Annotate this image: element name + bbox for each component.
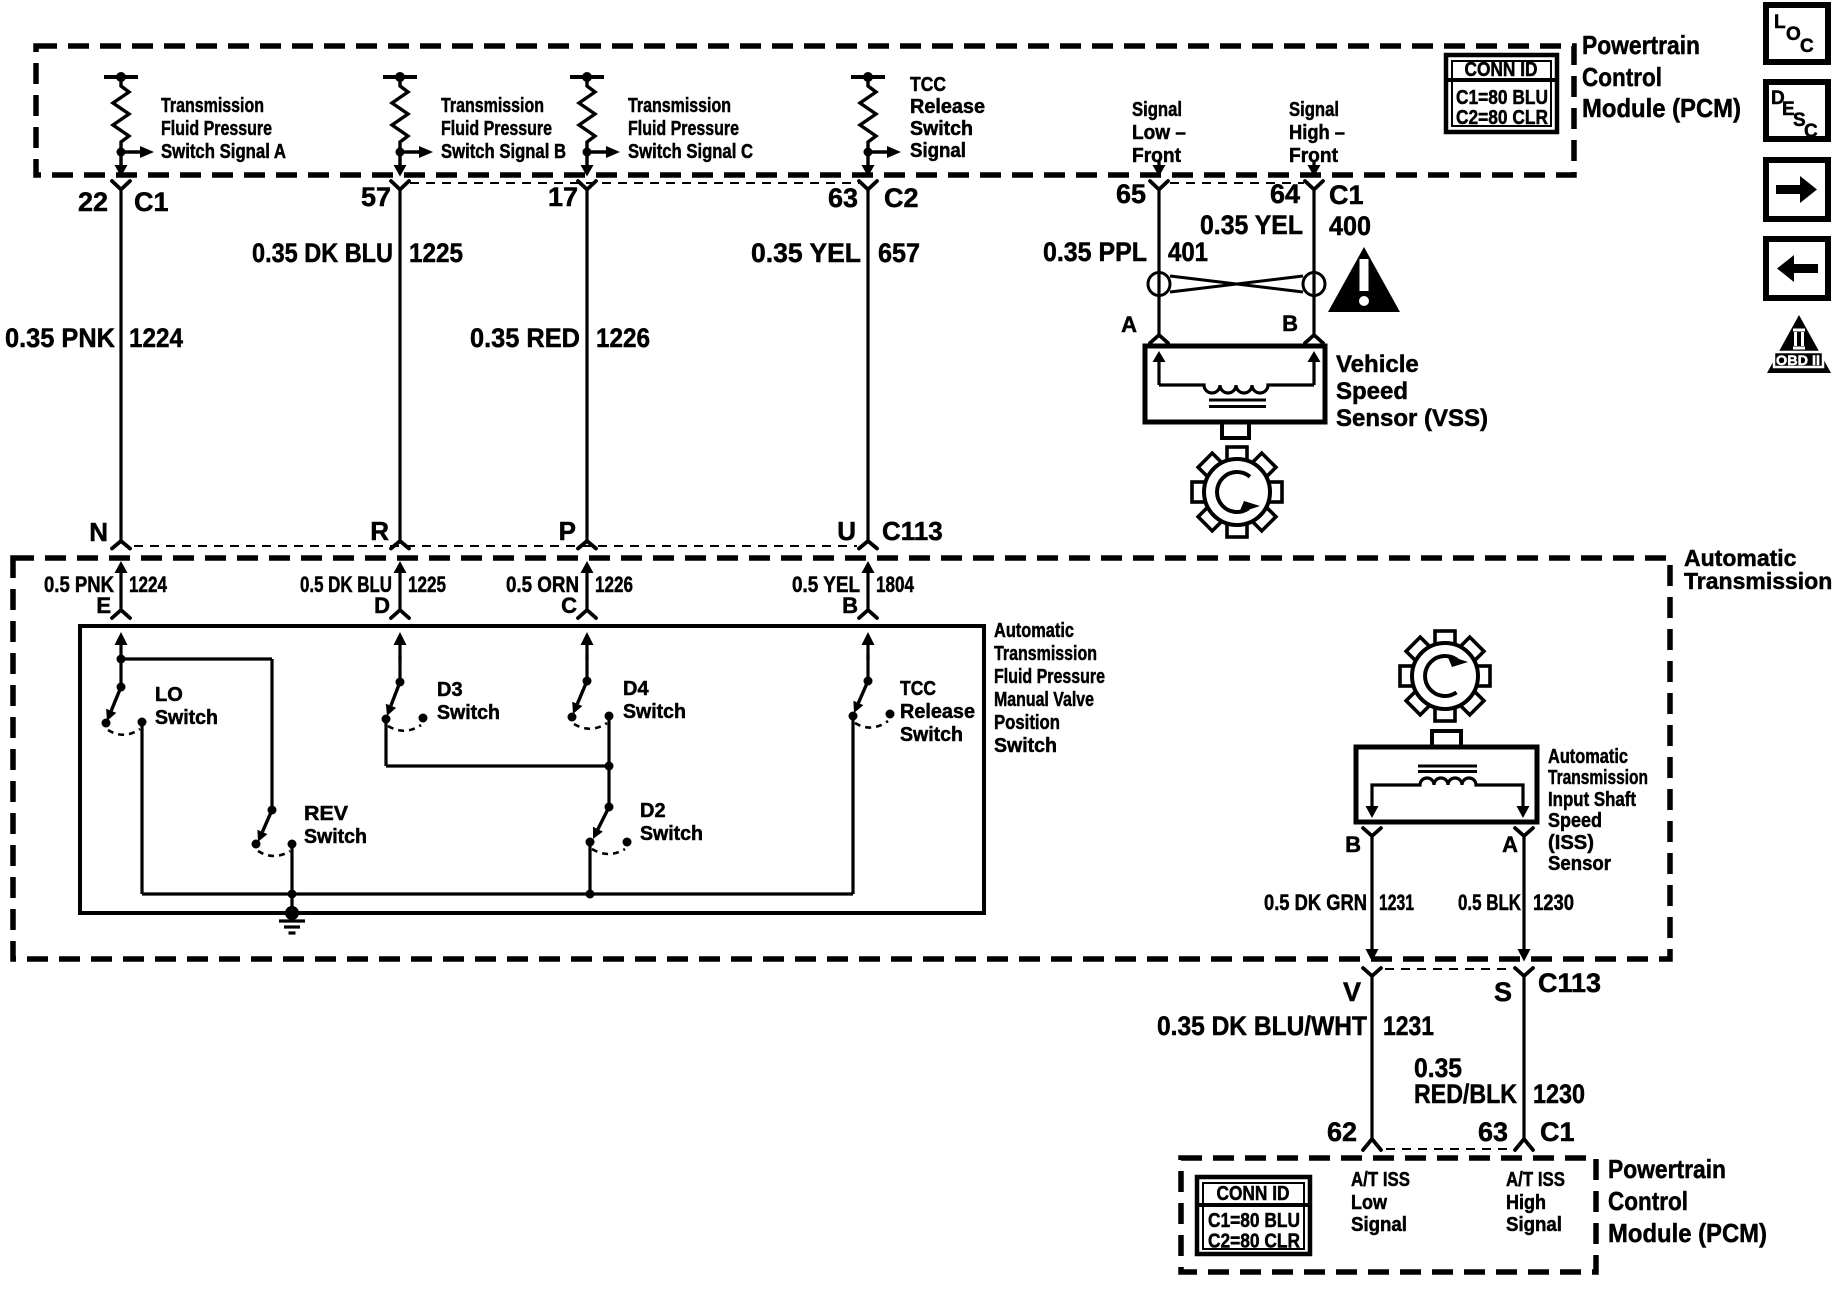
svg-text:1224: 1224 — [129, 572, 168, 597]
svg-text:C113: C113 — [1538, 968, 1601, 998]
svg-text:1231: 1231 — [1383, 1011, 1434, 1041]
svg-text:0.5 BLK: 0.5 BLK — [1458, 890, 1521, 915]
svg-text:Position: Position — [994, 712, 1060, 734]
svg-text:Fluid Pressure: Fluid Pressure — [161, 118, 272, 140]
wire 1225 DK BLU from pin 57 — [398, 189, 401, 541]
svg-text:A: A — [1121, 312, 1137, 337]
svg-text:Fluid Pressure: Fluid Pressure — [994, 666, 1105, 688]
D3 Switch — [382, 655, 610, 766]
svg-text:Manual Valve: Manual Valve — [994, 689, 1094, 711]
svg-text:Signal: Signal — [1506, 1214, 1562, 1236]
svg-text:57: 57 — [361, 182, 391, 212]
svg-text:Transmission: Transmission — [994, 643, 1097, 665]
entry arrow inside AT switch box x=587 — [581, 632, 594, 645]
LO Switch — [102, 655, 273, 895]
svg-text:B: B — [1282, 311, 1298, 336]
Automatic Transmission ISS Sensor box — [1356, 747, 1537, 822]
Powertrain Control Module (PCM) top dashed box — [36, 46, 1574, 175]
svg-text:C: C — [1804, 121, 1818, 142]
svg-text:63: 63 — [828, 183, 858, 213]
svg-text:0.35 YEL: 0.35 YEL — [751, 238, 861, 268]
pin connector at x=587 — [578, 181, 596, 190]
svg-text:Signal: Signal — [910, 140, 966, 162]
svg-text:Automatic: Automatic — [994, 620, 1074, 642]
svg-text:S: S — [1494, 977, 1512, 1007]
wire S to pin 63 — [1522, 976, 1525, 1139]
svg-text:1225: 1225 — [409, 238, 463, 268]
svg-text:LO: LO — [155, 684, 183, 706]
svg-text:Low: Low — [1351, 1192, 1387, 1214]
icon right arrow box — [1766, 160, 1828, 219]
svg-text:0.35 PPL: 0.35 PPL — [1043, 237, 1147, 267]
svg-text:Low –: Low – — [1132, 122, 1186, 144]
entry arrow inside AT switch box x=400 — [394, 632, 407, 645]
pin connector at x=1314 — [1305, 181, 1323, 190]
C113 pin chevron at x=121 — [112, 541, 130, 549]
svg-text:1231: 1231 — [1379, 890, 1414, 915]
thin dashed connector line top row — [410, 182, 859, 184]
svg-text:400: 400 — [1329, 211, 1371, 241]
svg-text:Release: Release — [900, 701, 975, 723]
svg-text:U: U — [837, 516, 856, 546]
C113 pin chevron at x=587 — [578, 541, 596, 549]
svg-text:B: B — [1345, 832, 1361, 857]
svg-text:V: V — [1343, 977, 1361, 1007]
svg-text:C1: C1 — [1329, 180, 1364, 210]
wire 1224 PNK from pin 22 — [119, 189, 122, 541]
svg-text:Speed: Speed — [1548, 810, 1602, 832]
svg-text:Switch: Switch — [640, 823, 703, 845]
VSS reluctor gear — [1192, 447, 1282, 537]
svg-text:High: High — [1506, 1192, 1546, 1214]
warning triangle — [1328, 247, 1400, 312]
TCC Release Switch — [849, 655, 976, 894]
twisted pair symbol — [1148, 273, 1325, 296]
svg-text:22: 22 — [78, 187, 108, 217]
pin connector at x=868 — [859, 181, 877, 190]
svg-text:64: 64 — [1270, 179, 1300, 209]
svg-text:D3: D3 — [437, 679, 463, 701]
svg-text:0.5 DK GRN: 0.5 DK GRN — [1264, 890, 1367, 915]
svg-text:Switch: Switch — [304, 826, 367, 848]
wire stub into AT at x=587 — [581, 561, 594, 573]
svg-text:0.35 YEL: 0.35 YEL — [1200, 210, 1303, 240]
Vehicle Speed Sensor (VSS) box — [1145, 346, 1325, 422]
svg-text:Transmission: Transmission — [1684, 568, 1832, 594]
svg-text:C1: C1 — [134, 187, 169, 217]
C113 pin chevron at x=868 — [859, 541, 877, 549]
svg-text:Signal: Signal — [1132, 99, 1182, 121]
svg-text:D: D — [374, 593, 390, 618]
svg-text:Transmission: Transmission — [1548, 767, 1648, 789]
icon LOC box — [1766, 5, 1828, 62]
pin connector at x=1159 — [1150, 181, 1168, 190]
svg-text:Switch: Switch — [994, 735, 1057, 757]
svg-text:Module (PCM): Module (PCM) — [1582, 93, 1741, 123]
svg-text:Powertrain: Powertrain — [1608, 1154, 1726, 1184]
svg-text:Automatic: Automatic — [1548, 746, 1628, 768]
svg-text:1225: 1225 — [408, 572, 446, 597]
svg-text:Signal: Signal — [1351, 1214, 1407, 1236]
svg-text:Control: Control — [1608, 1186, 1688, 1216]
wire 657 YEL from pin 63 — [866, 189, 869, 541]
resistor R4 TCC release switch signal — [851, 77, 888, 166]
wire V to pin 62 — [1370, 976, 1373, 1139]
svg-text:Transmission: Transmission — [628, 95, 731, 117]
Automatic Transmission dashed box — [13, 558, 1670, 959]
svg-text:Switch: Switch — [623, 701, 686, 723]
svg-text:1230: 1230 — [1533, 890, 1574, 915]
svg-text:Release: Release — [910, 96, 985, 118]
svg-text:O: O — [1786, 24, 1801, 45]
svg-text:C1=80 BLU: C1=80 BLU — [1208, 1210, 1300, 1232]
svg-text:C1: C1 — [1540, 1117, 1575, 1147]
svg-text:Fluid Pressure: Fluid Pressure — [628, 118, 739, 140]
svg-text:Vehicle: Vehicle — [1336, 351, 1419, 378]
svg-text:Transmission: Transmission — [161, 95, 264, 117]
ISS reluctor gear — [1400, 631, 1490, 721]
svg-text:Switch: Switch — [910, 118, 973, 140]
CONN ID table (top PCM) — [1446, 55, 1557, 132]
svg-text:1230: 1230 — [1533, 1079, 1585, 1109]
svg-text:TCC: TCC — [910, 74, 946, 96]
svg-text:Switch: Switch — [155, 707, 218, 729]
svg-text:Signal: Signal — [1289, 99, 1339, 121]
VSS pin connectors — [1150, 335, 1168, 343]
svg-text:Input Shaft: Input Shaft — [1548, 789, 1636, 811]
ground — [279, 906, 305, 933]
wire stub into AT at x=400 — [394, 561, 407, 573]
svg-text:Switch Signal A: Switch Signal A — [161, 141, 286, 163]
icon OBD II triangle — [1767, 315, 1831, 373]
ISS mounting tab — [1432, 731, 1461, 747]
svg-text:Switch: Switch — [900, 724, 963, 746]
svg-text:N: N — [89, 517, 108, 547]
svg-text:Switch Signal B: Switch Signal B — [441, 141, 566, 163]
connector C113 bottom — [1363, 968, 1381, 976]
svg-text:R: R — [370, 516, 389, 546]
svg-text:Switch Signal C: Switch Signal C — [628, 141, 753, 163]
signal high front arrow into connector — [1312, 161, 1315, 167]
common bus wire — [142, 892, 853, 895]
svg-text:1804: 1804 — [876, 572, 915, 597]
wire stub into AT at x=868 — [862, 561, 875, 573]
svg-text:Fluid Pressure: Fluid Pressure — [441, 118, 552, 140]
svg-text:Transmission: Transmission — [441, 95, 544, 117]
svg-text:CONN ID: CONN ID — [1465, 59, 1538, 81]
svg-text:1224: 1224 — [129, 323, 183, 353]
entry arrow inside AT switch box x=868 — [862, 632, 875, 645]
svg-text:(ISS): (ISS) — [1548, 832, 1594, 854]
svg-text:D2: D2 — [640, 800, 666, 822]
pin connector at x=121 — [112, 181, 130, 190]
svg-text:A/T ISS: A/T ISS — [1506, 1169, 1565, 1191]
svg-text:P: P — [559, 516, 576, 546]
wire 401 PPL to VSS A — [1157, 189, 1160, 335]
svg-text:0.35 PNK: 0.35 PNK — [5, 323, 115, 353]
entry arrow inside AT switch box x=121 — [115, 632, 128, 645]
svg-text:C: C — [561, 593, 577, 618]
icon left arrow box — [1766, 239, 1828, 298]
wire stub into AT at x=121 — [115, 561, 128, 573]
Powertrain Control Module (PCM) bottom dashed box — [1181, 1158, 1596, 1272]
svg-text:0.35 DK BLU/WHT: 0.35 DK BLU/WHT — [1157, 1011, 1367, 1041]
svg-text:62: 62 — [1327, 1117, 1357, 1147]
svg-text:Sensor (VSS): Sensor (VSS) — [1336, 405, 1488, 432]
svg-text:D4: D4 — [623, 678, 649, 700]
ATFP Manual Valve Position Switch box — [80, 626, 984, 913]
resistor R3 TFP switch signal C — [570, 77, 607, 166]
svg-text:Speed: Speed — [1336, 378, 1408, 405]
svg-text:C2=80 CLR: C2=80 CLR — [1208, 1231, 1300, 1253]
svg-text:OBD II: OBD II — [1776, 352, 1820, 368]
CONN ID table (bottom PCM) — [1197, 1177, 1310, 1254]
svg-text:Switch: Switch — [437, 702, 500, 724]
svg-text:High –: High – — [1289, 122, 1345, 144]
wire 1231 DK GRN from ISS B — [1370, 836, 1373, 950]
svg-text:65: 65 — [1116, 179, 1146, 209]
svg-text:C2: C2 — [884, 183, 919, 213]
svg-text:A/T ISS: A/T ISS — [1351, 1169, 1410, 1191]
svg-text:1226: 1226 — [595, 572, 633, 597]
svg-text:Sensor: Sensor — [1548, 853, 1611, 875]
svg-text:17: 17 — [548, 182, 578, 212]
wire 1226 RED from pin 17 — [585, 189, 588, 541]
D4 Switch — [568, 655, 687, 807]
svg-text:Front: Front — [1132, 145, 1181, 167]
svg-text:CONN ID: CONN ID — [1217, 1183, 1290, 1205]
svg-text:B: B — [842, 593, 858, 618]
D2 Switch — [586, 800, 704, 899]
icon DESC box — [1766, 82, 1828, 142]
resistor R2 TFP switch signal B — [383, 77, 420, 166]
REV Switch — [252, 659, 368, 913]
svg-text:A: A — [1502, 832, 1518, 857]
svg-text:Powertrain: Powertrain — [1582, 30, 1700, 60]
svg-text:0.35 DK BLU: 0.35 DK BLU — [252, 238, 393, 268]
resistor R1 TFP switch signal A — [104, 77, 141, 166]
svg-text:L: L — [1774, 12, 1786, 33]
svg-text:Module (PCM): Module (PCM) — [1608, 1218, 1767, 1248]
svg-text:RED/BLK: RED/BLK — [1414, 1079, 1517, 1109]
svg-text:1226: 1226 — [596, 323, 650, 353]
svg-text:C: C — [1800, 36, 1814, 57]
svg-text:C1=80 BLU: C1=80 BLU — [1456, 87, 1548, 109]
signal low front arrow into connector — [1157, 161, 1160, 167]
svg-text:C2=80 CLR: C2=80 CLR — [1456, 107, 1548, 129]
svg-text:Control: Control — [1582, 62, 1662, 92]
arrowheads at AT box exit — [1366, 949, 1379, 962]
ISS pin connectors below box — [1363, 828, 1381, 836]
pin connector at x=400 — [391, 181, 409, 190]
svg-text:E: E — [96, 593, 111, 618]
svg-text:C113: C113 — [882, 516, 943, 546]
svg-text:0.35 RED: 0.35 RED — [470, 323, 580, 353]
svg-text:657: 657 — [878, 238, 920, 268]
svg-text:REV: REV — [304, 803, 349, 825]
C113 pin chevron at x=400 — [391, 541, 409, 549]
VSS mounting tab — [1222, 422, 1249, 438]
svg-text:401: 401 — [1168, 237, 1208, 267]
wire 1230 BLK from ISS A — [1522, 836, 1525, 950]
wire 400 YEL to VSS B — [1312, 189, 1315, 335]
svg-text:63: 63 — [1478, 1117, 1508, 1147]
svg-text:TCC: TCC — [900, 678, 936, 700]
